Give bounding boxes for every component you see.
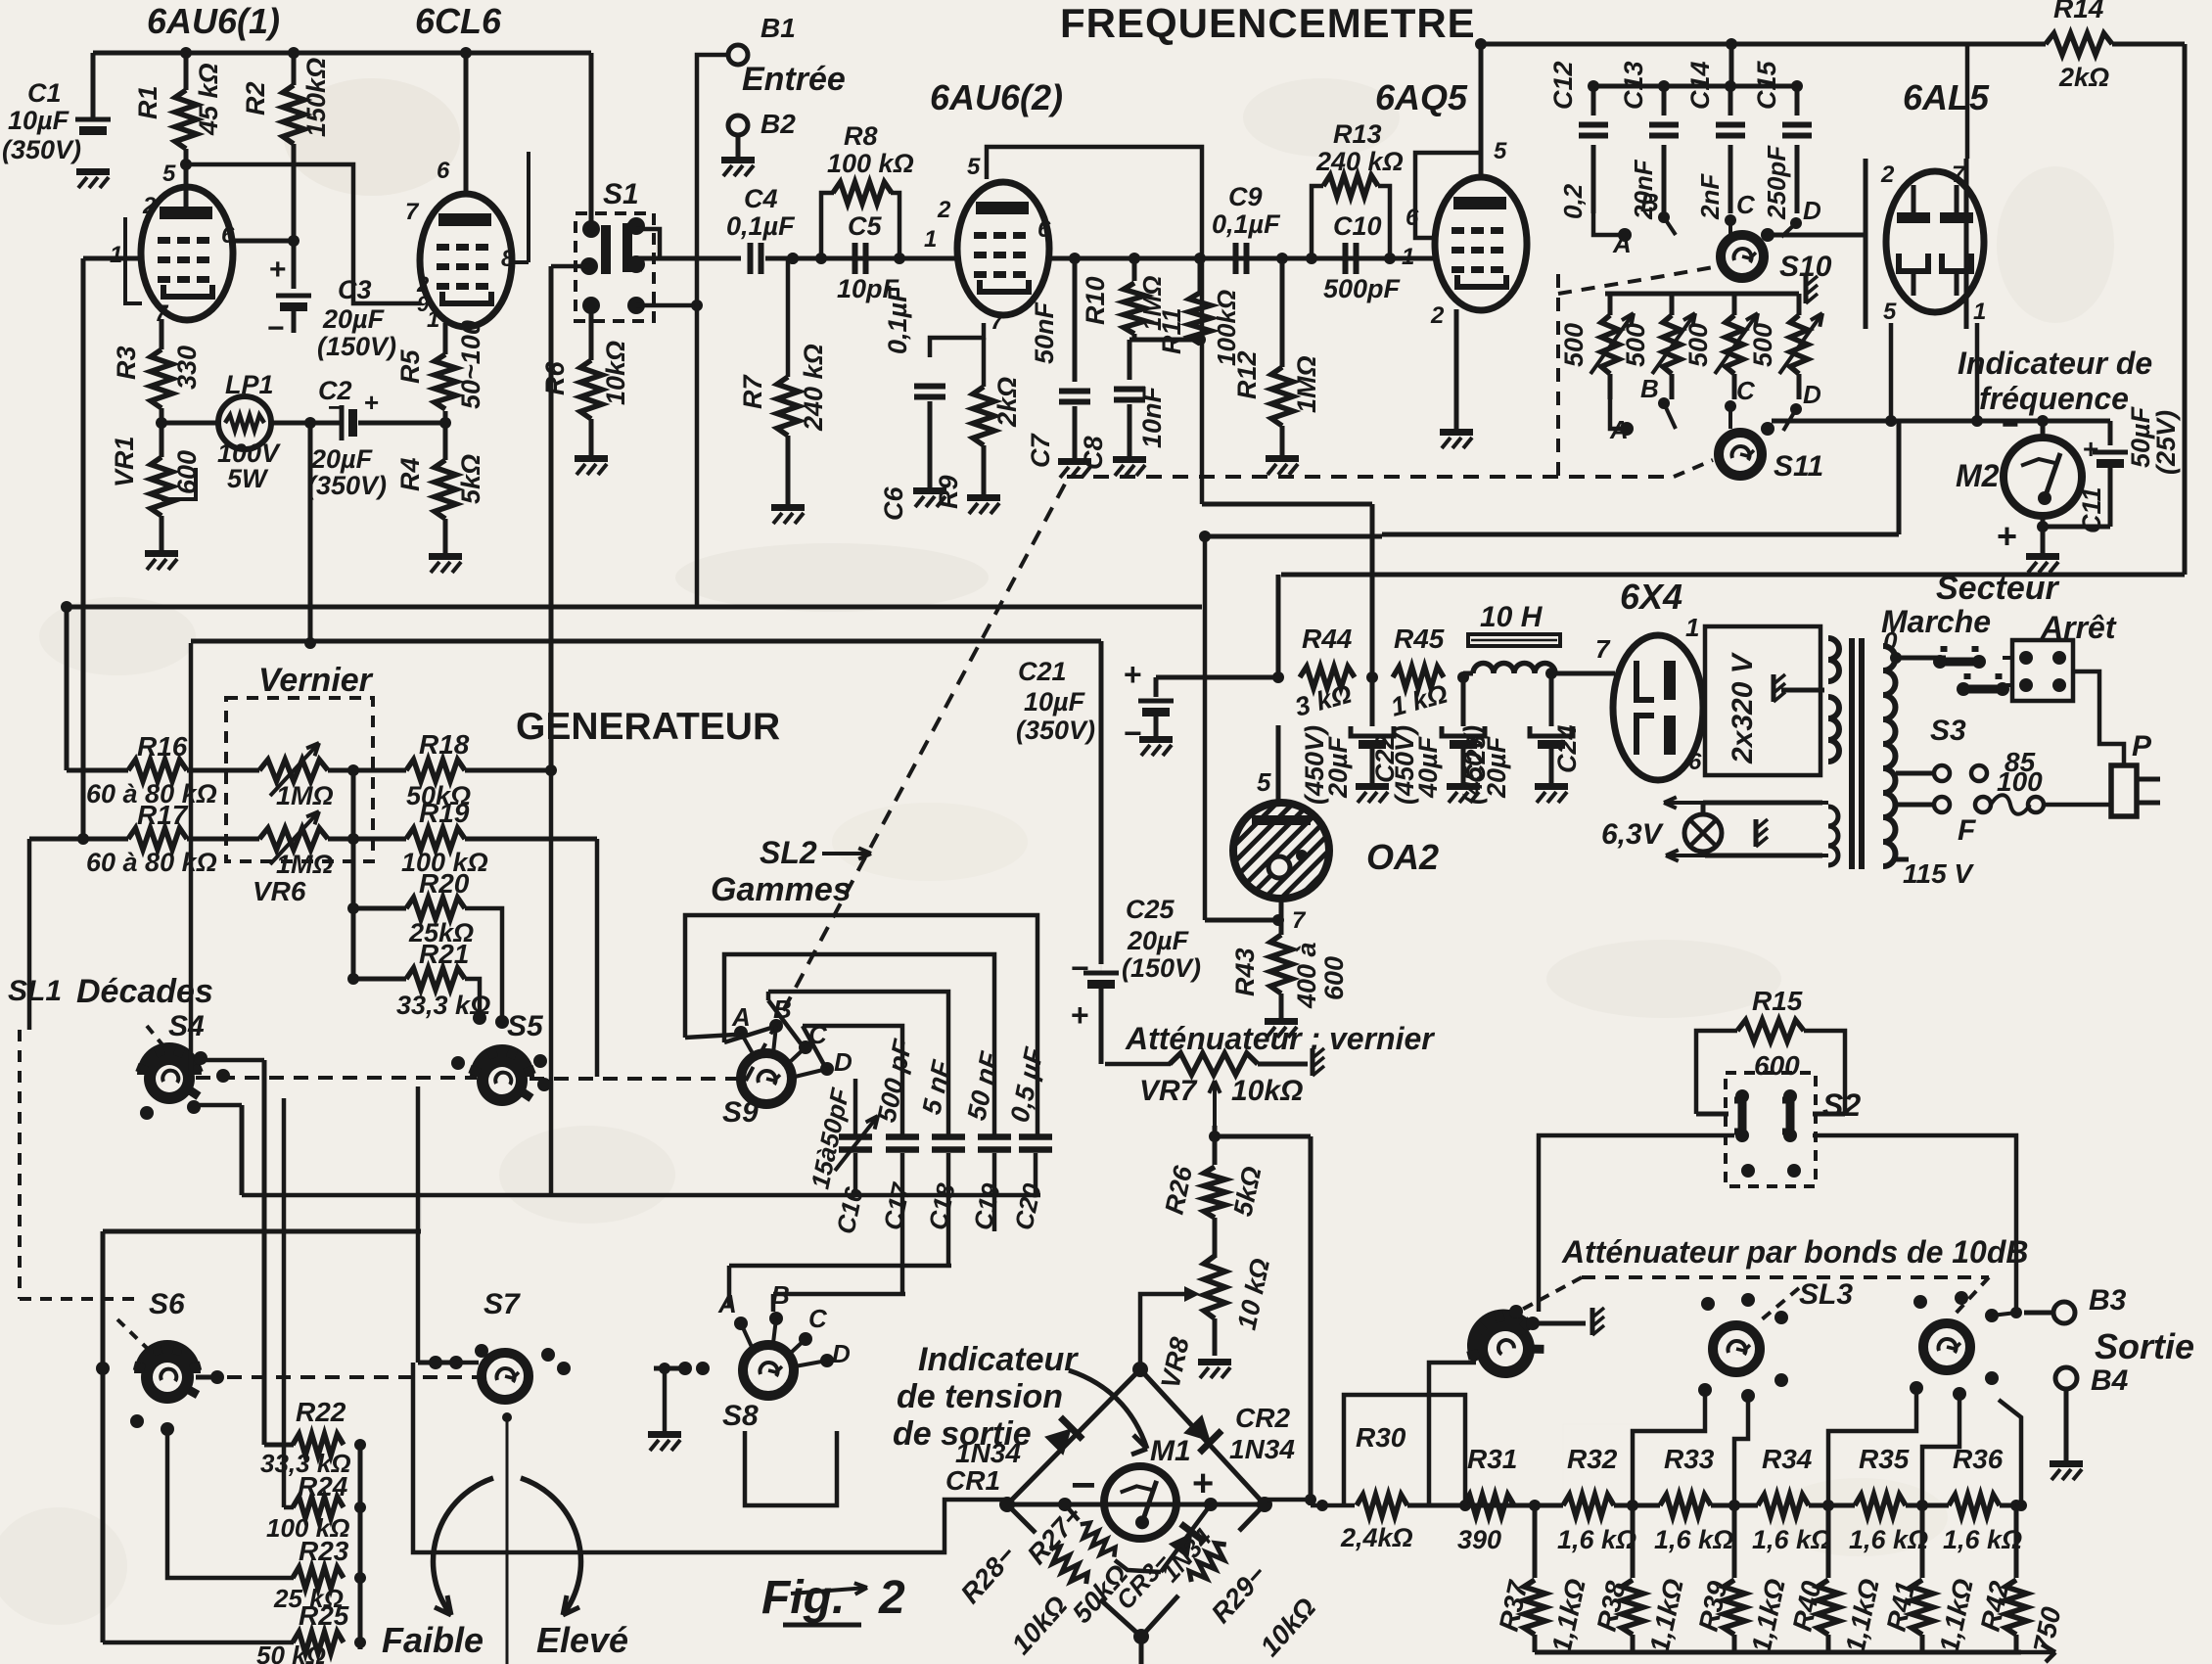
svg-text:R31: R31 — [1467, 1444, 1517, 1474]
svg-text:50nF: 50nF — [1030, 300, 1059, 364]
svg-text:C11: C11 — [2077, 486, 2106, 533]
svg-text:S11: S11 — [1774, 450, 1823, 483]
svg-text:R18: R18 — [419, 729, 470, 760]
svg-text:1,1kΩ: 1,1kΩ — [1546, 1576, 1591, 1655]
svg-text:50 kΩ: 50 kΩ — [256, 1641, 326, 1664]
svg-text:+: + — [364, 388, 379, 417]
svg-text:C3: C3 — [338, 275, 372, 304]
svg-text:C16: C16 — [831, 1184, 869, 1236]
svg-text:0,1µF: 0,1µF — [883, 285, 912, 354]
svg-text:D: D — [832, 1339, 851, 1368]
svg-text:R1: R1 — [133, 85, 162, 119]
svg-text:P: P — [2132, 730, 2152, 763]
svg-text:2,4kΩ: 2,4kΩ — [1340, 1523, 1413, 1552]
svg-text:5 nF: 5 nF — [917, 1056, 957, 1117]
svg-text:C9: C9 — [1228, 182, 1263, 211]
svg-text:6AL5: 6AL5 — [1903, 77, 1990, 117]
svg-text:C24: C24 — [1552, 724, 1582, 773]
svg-text:R11: R11 — [1157, 307, 1186, 354]
svg-text:R12: R12 — [1232, 350, 1262, 399]
svg-text:600: 600 — [1754, 1050, 1800, 1081]
svg-text:115 V: 115 V — [1903, 858, 1974, 889]
svg-text:60 à 80 kΩ: 60 à 80 kΩ — [86, 848, 217, 877]
svg-text:20µF: 20µF — [322, 304, 386, 334]
svg-text:(25V): (25V) — [2151, 410, 2181, 475]
svg-text:1MΩ: 1MΩ — [276, 850, 334, 879]
svg-text:SL1: SL1 — [8, 975, 62, 1007]
svg-text:R19: R19 — [419, 798, 470, 828]
svg-text:GENERATEUR: GENERATEUR — [516, 706, 780, 748]
svg-text:10kΩ: 10kΩ — [1254, 1592, 1321, 1662]
svg-text:1N34: 1N34 — [1229, 1434, 1295, 1464]
svg-text:B1: B1 — [760, 13, 796, 43]
svg-text:B2: B2 — [760, 109, 796, 139]
svg-text:+: + — [1071, 997, 1089, 1033]
svg-text:1,1kΩ: 1,1kΩ — [1934, 1576, 1979, 1655]
svg-text:R21: R21 — [419, 939, 469, 969]
svg-text:R10: R10 — [1081, 276, 1110, 325]
svg-text:10nF: 10nF — [1137, 385, 1167, 448]
svg-text:+: + — [1997, 516, 2017, 556]
svg-text:240 kΩ: 240 kΩ — [799, 344, 828, 432]
svg-text:7: 7 — [1595, 634, 1611, 664]
svg-text:SL2: SL2 — [760, 835, 817, 870]
svg-text:R28−: R28− — [954, 1540, 1021, 1609]
svg-text:2kΩ: 2kΩ — [992, 377, 1022, 428]
svg-text:1,6 kΩ: 1,6 kΩ — [1943, 1525, 2022, 1554]
svg-text:10µF: 10µF — [1024, 687, 1086, 716]
svg-text:5: 5 — [162, 161, 176, 187]
svg-text:0,1µF: 0,1µF — [726, 211, 796, 241]
svg-text:Faible: Faible — [382, 1620, 484, 1660]
svg-text:1: 1 — [1402, 244, 1414, 270]
svg-text:5kΩ: 5kΩ — [1228, 1164, 1267, 1219]
svg-text:R35: R35 — [1859, 1444, 1910, 1474]
svg-text:C1: C1 — [27, 78, 62, 108]
svg-text:+: + — [1192, 1463, 1214, 1504]
svg-text:−: − — [2002, 409, 2019, 441]
svg-text:C10: C10 — [1333, 211, 1382, 241]
svg-text:1,6 kΩ: 1,6 kΩ — [1654, 1525, 1733, 1554]
svg-text:10µF: 10µF — [8, 106, 70, 135]
svg-text:1MΩ: 1MΩ — [276, 781, 334, 810]
svg-text:S4: S4 — [168, 1010, 205, 1042]
svg-text:R20: R20 — [419, 868, 470, 899]
svg-text:1,6 kΩ: 1,6 kΩ — [1752, 1525, 1831, 1554]
svg-text:VR8: VR8 — [1156, 1335, 1195, 1392]
svg-text:390: 390 — [1457, 1525, 1501, 1554]
svg-text:R32: R32 — [1567, 1444, 1618, 1474]
svg-text:D: D — [1803, 380, 1821, 409]
svg-text:R4: R4 — [395, 457, 425, 491]
svg-text:Marche: Marche — [1881, 604, 1991, 639]
svg-text:R8: R8 — [844, 121, 878, 151]
svg-text:7: 7 — [1952, 162, 1966, 188]
svg-text:C: C — [1736, 190, 1756, 219]
svg-text:2kΩ: 2kΩ — [2058, 63, 2109, 92]
svg-text:B4: B4 — [2091, 1364, 2129, 1397]
svg-text:10kΩ: 10kΩ — [1231, 1075, 1303, 1107]
svg-text:0,5 µF: 0,5 µF — [1005, 1043, 1050, 1125]
svg-text:(450V): (450V) — [1458, 725, 1488, 805]
svg-text:+: + — [1124, 657, 1142, 692]
svg-text:R5: R5 — [395, 349, 425, 384]
svg-text:6AU6(2): 6AU6(2) — [930, 77, 1063, 117]
svg-text:7: 7 — [405, 199, 420, 225]
svg-text:+: + — [2083, 434, 2098, 464]
svg-text:Entrée: Entrée — [742, 61, 846, 98]
svg-text:6: 6 — [221, 222, 235, 249]
svg-text:1: 1 — [1685, 613, 1699, 642]
svg-text:6: 6 — [1688, 749, 1702, 775]
svg-text:+: + — [269, 254, 287, 286]
svg-text:C15: C15 — [1752, 60, 1781, 110]
svg-text:C: C — [808, 1304, 828, 1333]
svg-text:2: 2 — [878, 1572, 905, 1624]
svg-text:C: C — [1736, 376, 1756, 405]
svg-text:R45: R45 — [1394, 624, 1445, 654]
svg-text:C17: C17 — [878, 1179, 917, 1232]
svg-text:de tension: de tension — [897, 1378, 1063, 1415]
svg-text:7: 7 — [991, 308, 1005, 335]
svg-text:10 kΩ: 10 kΩ — [1232, 1256, 1276, 1332]
svg-text:C8: C8 — [1079, 436, 1108, 470]
svg-text:2: 2 — [142, 193, 157, 219]
svg-text:1,1kΩ: 1,1kΩ — [1644, 1576, 1689, 1655]
svg-text:Atténuateur par bonds de 10dB: Atténuateur par bonds de 10dB — [1561, 1234, 2029, 1270]
svg-text:(150V): (150V) — [317, 332, 396, 361]
svg-text:240 kΩ: 240 kΩ — [1315, 147, 1404, 176]
svg-text:1,6 kΩ: 1,6 kΩ — [1849, 1525, 1928, 1554]
svg-text:VR6: VR6 — [253, 876, 306, 906]
svg-text:600: 600 — [172, 450, 202, 494]
svg-text:R34: R34 — [1762, 1444, 1813, 1474]
svg-text:(350V): (350V) — [307, 471, 387, 500]
svg-text:100 kΩ: 100 kΩ — [827, 149, 914, 178]
svg-text:6: 6 — [1406, 205, 1419, 231]
svg-text:R9: R9 — [934, 475, 963, 509]
svg-text:−: − — [328, 393, 343, 422]
svg-text:C12: C12 — [1548, 61, 1578, 110]
svg-text:500: 500 — [1683, 323, 1713, 367]
svg-text:B: B — [771, 1280, 790, 1310]
svg-text:S2: S2 — [1822, 1087, 1861, 1123]
svg-text:B: B — [1640, 374, 1659, 403]
svg-text:Indicateur: Indicateur — [918, 1341, 1079, 1378]
svg-text:5W: 5W — [227, 464, 269, 493]
svg-text:500: 500 — [1559, 323, 1589, 367]
svg-text:5: 5 — [1494, 138, 1507, 164]
svg-text:10kΩ: 10kΩ — [601, 341, 630, 405]
svg-text:B: B — [1640, 188, 1659, 217]
svg-text:−: − — [1071, 1461, 1096, 1509]
svg-text:de sortie: de sortie — [893, 1415, 1032, 1453]
svg-text:600: 600 — [1319, 956, 1349, 1000]
svg-text:SL3: SL3 — [1799, 1278, 1853, 1311]
svg-text:R6: R6 — [540, 361, 570, 395]
svg-text:M2: M2 — [1956, 458, 2000, 493]
svg-text:8: 8 — [501, 246, 515, 272]
svg-text:S6: S6 — [149, 1288, 185, 1320]
svg-text:2: 2 — [937, 197, 951, 223]
svg-text:D: D — [1803, 196, 1821, 225]
svg-text:2: 2 — [1880, 162, 1895, 188]
svg-text:1: 1 — [924, 226, 937, 253]
svg-text:(150V): (150V) — [1122, 953, 1201, 983]
svg-text:C20: C20 — [1009, 1180, 1047, 1232]
svg-text:6,3V: 6,3V — [1601, 818, 1665, 851]
svg-text:(450V): (450V) — [1390, 725, 1419, 805]
svg-text:Fig.: Fig. — [761, 1572, 845, 1624]
svg-text:OA2: OA2 — [1366, 837, 1439, 877]
svg-text:1,1kΩ: 1,1kΩ — [1746, 1576, 1791, 1655]
svg-text:C4: C4 — [744, 184, 778, 213]
svg-text:S8: S8 — [722, 1400, 759, 1432]
svg-text:330: 330 — [172, 346, 202, 390]
svg-text:10kΩ: 10kΩ — [1005, 1590, 1073, 1660]
svg-text:500 pF: 500 pF — [872, 1036, 918, 1125]
svg-text:C14: C14 — [1685, 61, 1715, 110]
svg-text:C13: C13 — [1619, 61, 1648, 110]
svg-text:R24: R24 — [298, 1471, 348, 1502]
svg-text:R44: R44 — [1302, 624, 1353, 654]
svg-text:C6: C6 — [879, 486, 908, 521]
svg-text:100: 100 — [1997, 766, 2043, 797]
svg-text:1,1kΩ: 1,1kΩ — [1840, 1576, 1885, 1655]
svg-text:R3: R3 — [112, 346, 141, 380]
svg-text:R13: R13 — [1333, 119, 1382, 149]
svg-text:500pF: 500pF — [1323, 274, 1402, 303]
svg-text:C18: C18 — [923, 1180, 961, 1232]
svg-text:Gammes: Gammes — [711, 871, 852, 908]
svg-text:6AU6(1): 6AU6(1) — [147, 1, 280, 41]
svg-text:500: 500 — [1621, 323, 1650, 367]
svg-text:C5: C5 — [848, 211, 882, 241]
svg-text:R43: R43 — [1230, 948, 1260, 996]
svg-text:500: 500 — [1748, 323, 1777, 367]
svg-text:20µF: 20µF — [1127, 926, 1190, 955]
svg-text:5: 5 — [967, 154, 981, 180]
svg-text:20µF: 20µF — [310, 444, 374, 474]
svg-text:C7: C7 — [1026, 433, 1055, 468]
svg-text:R33: R33 — [1664, 1444, 1715, 1474]
svg-text:C21: C21 — [1018, 657, 1067, 686]
svg-text:6CL6: 6CL6 — [415, 1, 502, 41]
svg-text:R17: R17 — [137, 800, 189, 830]
svg-text:R14: R14 — [2053, 0, 2104, 23]
svg-text:CR1: CR1 — [945, 1465, 1000, 1496]
svg-text:R23: R23 — [299, 1536, 349, 1566]
svg-text:400 à: 400 à — [1292, 942, 1321, 1009]
svg-text:B3: B3 — [2089, 1284, 2127, 1317]
svg-text:0,2: 0,2 — [1558, 183, 1588, 219]
svg-text:(450V): (450V) — [1300, 725, 1329, 805]
svg-text:45 kΩ: 45 kΩ — [194, 63, 223, 136]
svg-text:F: F — [1958, 814, 1976, 847]
svg-text:1 kΩ: 1 kΩ — [1388, 679, 1451, 722]
svg-text:Atténuateur : vernier: Atténuateur : vernier — [1125, 1021, 1435, 1056]
svg-text:150kΩ: 150kΩ — [301, 58, 331, 137]
svg-text:R7: R7 — [738, 374, 767, 409]
svg-text:R25: R25 — [299, 1600, 349, 1631]
svg-text:50~100: 50~100 — [456, 320, 485, 409]
svg-text:5: 5 — [1257, 767, 1271, 797]
svg-text:1: 1 — [1973, 299, 1986, 325]
svg-text:−: − — [1071, 950, 1089, 986]
svg-text:1: 1 — [427, 306, 439, 333]
svg-text:S3: S3 — [1930, 715, 1966, 747]
svg-text:6AQ5: 6AQ5 — [1375, 77, 1468, 117]
svg-text:5: 5 — [1883, 299, 1897, 325]
svg-text:D: D — [834, 1047, 853, 1077]
svg-text:−: − — [267, 312, 285, 345]
svg-text:A: A — [717, 1289, 737, 1318]
svg-text:R15: R15 — [1752, 986, 1803, 1016]
svg-text:R30: R30 — [1356, 1422, 1406, 1453]
svg-text:Elevé: Elevé — [536, 1620, 628, 1660]
svg-text:10 H: 10 H — [1480, 601, 1544, 633]
svg-text:VR1: VR1 — [110, 436, 139, 487]
svg-text:(350V): (350V) — [1016, 716, 1095, 745]
svg-text:1MΩ: 1MΩ — [1292, 355, 1321, 413]
svg-text:−: − — [1124, 716, 1142, 751]
svg-text:6X4: 6X4 — [1620, 577, 1682, 617]
svg-text:2nF: 2nF — [1695, 173, 1725, 220]
svg-text:S7: S7 — [484, 1288, 521, 1320]
svg-text:S1: S1 — [603, 178, 639, 210]
svg-text:3 kΩ: 3 kΩ — [1292, 679, 1355, 722]
svg-text:R16: R16 — [137, 731, 188, 762]
svg-text:Secteur: Secteur — [1936, 570, 2059, 607]
svg-text:VR7: VR7 — [1139, 1075, 1198, 1107]
svg-text:Indicateur de: Indicateur de — [1958, 346, 2152, 381]
svg-text:R22: R22 — [296, 1397, 346, 1427]
svg-text:250pF: 250pF — [1762, 145, 1791, 220]
svg-text:(350V): (350V) — [2, 135, 81, 164]
svg-text:C19: C19 — [968, 1180, 1006, 1232]
svg-text:50 nF: 50 nF — [962, 1048, 1005, 1124]
svg-text:2x320 V: 2x320 V — [1727, 651, 1759, 764]
svg-text:1,6 kΩ: 1,6 kΩ — [1557, 1525, 1636, 1554]
svg-text:5kΩ: 5kΩ — [456, 454, 485, 504]
svg-text:A: A — [731, 1002, 751, 1032]
svg-text:M1: M1 — [1150, 1435, 1191, 1467]
svg-text:R2: R2 — [241, 81, 270, 116]
svg-text:6: 6 — [437, 158, 450, 184]
svg-text:S5: S5 — [507, 1010, 544, 1042]
svg-text:Sortie: Sortie — [2095, 1326, 2194, 1366]
svg-text:Vernier: Vernier — [258, 662, 374, 699]
svg-text:6: 6 — [1037, 216, 1051, 243]
svg-text:1: 1 — [110, 242, 122, 268]
svg-text:CR2: CR2 — [1235, 1403, 1290, 1433]
svg-text:C25: C25 — [1126, 895, 1175, 924]
svg-text:0,1µF: 0,1µF — [1212, 209, 1281, 239]
svg-text:FREQUENCEMETRE: FREQUENCEMETRE — [1060, 0, 1476, 46]
svg-text:2: 2 — [1430, 302, 1445, 329]
svg-text:7: 7 — [1292, 907, 1307, 934]
svg-text:R26: R26 — [1160, 1163, 1199, 1218]
svg-text:LP1: LP1 — [225, 370, 274, 399]
